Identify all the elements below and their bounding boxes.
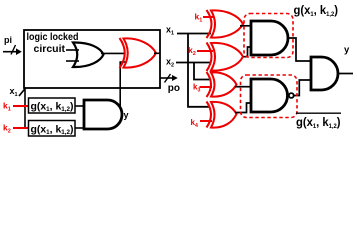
svg-text:logic locked: logic locked [27, 32, 79, 43]
label k1 (red, right) [195, 12, 203, 24]
k2 wire (red) [13, 127, 29, 129]
k1 wire (red) [13, 105, 29, 107]
label g-bar(x1,k1,2) bottom [296, 115, 341, 130]
wire XOR1 to AND1 [240, 25, 251, 27]
svg-text:circuit: circuit [34, 44, 66, 55]
label x1 (bottom left) [10, 86, 18, 98]
OR gate input stubs [66, 50, 79, 61]
wire g box A to AND2 [75, 105, 85, 107]
wire XOR2 to AND1 lower input [244, 47, 252, 57]
XOR gate XOR3 (red) [207, 72, 237, 97]
NAND output wire to final AND [294, 80, 311, 96]
svg-text:y: y [124, 110, 129, 120]
XOR gate XOR4 (red) [207, 102, 237, 128]
label po [168, 83, 180, 94]
wire x2 to XOR3 (vertical B) [194, 63, 210, 80]
dashed red box 2 [241, 75, 298, 118]
logic locked circuit box [24, 30, 160, 88]
g box B [29, 121, 76, 137]
overline of g-bar label [296, 112, 341, 114]
OR gate U1 (inside box) [73, 42, 104, 67]
wire x1 to XOR4 (vertical A) [188, 34, 210, 107]
NAND gate (bottom) [251, 79, 288, 112]
XOR output stub to box edge [154, 52, 160, 54]
XOR gate XOR1 (red) [207, 10, 244, 38]
wire XOR4 to NAND bottom input [235, 103, 251, 113]
g box A [29, 98, 76, 113]
NAND output bubble [289, 93, 294, 98]
x bus vertical wire [24, 88, 26, 128]
label: logic locked circuit [27, 32, 79, 55]
label g(x1,k1,2) top [294, 3, 339, 18]
label k4 (red) [191, 118, 198, 129]
svg-text:po: po [168, 83, 180, 94]
label k1 (left, red) [3, 101, 11, 113]
label y (final output) [344, 45, 350, 56]
k1 wire to XOR1 [203, 16, 213, 18]
label y (AND2 output) [124, 110, 129, 120]
label k3 (red) [193, 83, 200, 94]
label k2 (left, red) [3, 123, 11, 135]
svg-text:pi: pi [4, 35, 12, 45]
AND gate AND1 (top) [251, 21, 288, 55]
XOR gate XOR2 (red) [207, 43, 244, 72]
final AND gate [311, 57, 338, 90]
po arrow [160, 74, 178, 83]
k2 wire to XOR2 [197, 50, 213, 52]
k4 wire to XOR4 [200, 120, 212, 122]
wire OR to XOR [101, 52, 124, 54]
AND gate AND2 (bottom left) [84, 100, 122, 129]
dashed red box 1 [244, 14, 293, 58]
label x1 (right of box) [166, 25, 174, 37]
label k2 (red, right) [188, 45, 196, 57]
x bus slash [19, 88, 26, 97]
label pi [4, 35, 12, 45]
x1 rail [177, 33, 211, 35]
x2 rail [176, 62, 211, 64]
AND1 output wire to final AND [288, 38, 311, 61]
input pi arrow [3, 45, 22, 55]
output wire y [338, 73, 353, 75]
svg-text:y: y [344, 45, 350, 56]
wire XOR3 to NAND top input [235, 86, 251, 88]
k3 wire to XOR3 [200, 86, 213, 88]
XOR gate U2 (red, inside box) [120, 38, 157, 68]
feedback wire from y into XOR lower input [120, 62, 126, 115]
label x2 (right of box) [166, 57, 174, 69]
wire g box B to AND2 [75, 127, 85, 129]
